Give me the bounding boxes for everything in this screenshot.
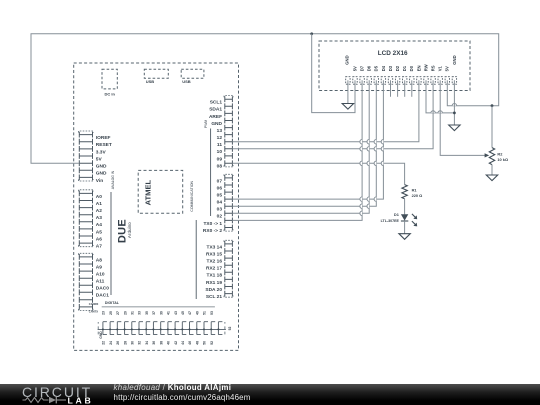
pin RX1 19 (right) xyxy=(206,277,232,286)
svg-text:COMMUNICATION: COMMUNICATION xyxy=(190,180,194,211)
svg-text:11: 11 xyxy=(217,142,222,148)
svg-text:EN: EN xyxy=(416,65,421,71)
pin 10 (right) xyxy=(217,146,233,155)
wire arduino pin04 to LCD D4 xyxy=(232,80,383,199)
svg-text:DAC0: DAC0 xyxy=(96,286,109,292)
svg-text:CANTX: CANTX xyxy=(89,310,98,314)
svg-text:A3: A3 xyxy=(96,215,102,221)
pin RX0 -> 2 (right) xyxy=(203,225,233,234)
ground symbol under R2 xyxy=(486,175,497,181)
svg-text:52: 52 xyxy=(210,341,214,345)
svg-text:39: 39 xyxy=(159,311,163,315)
svg-text:A9: A9 xyxy=(96,264,102,270)
svg-text:RX1 19: RX1 19 xyxy=(206,280,222,286)
svg-text:52: 52 xyxy=(228,327,232,331)
LCD unconnected pin stubs xyxy=(391,80,412,97)
USB connector 1 xyxy=(144,69,168,84)
DC in connector xyxy=(102,69,117,96)
wire GND loop net: arduino GND pin to top rail xyxy=(31,34,499,163)
svg-text:TX3 14: TX3 14 xyxy=(207,244,223,250)
svg-text:A5: A5 xyxy=(96,229,102,235)
pin AREF (right) xyxy=(209,111,232,120)
svg-text:51: 51 xyxy=(203,311,207,315)
svg-text:A11: A11 xyxy=(96,279,105,285)
hop on 5V rail over GND pin16 wire xyxy=(452,104,456,106)
svg-text:LAB: LAB xyxy=(68,395,94,405)
wire arduino pin03 to LCD D5 xyxy=(232,80,376,206)
svg-text:A8: A8 xyxy=(96,257,102,263)
LCD pin 2 5V xyxy=(352,66,357,84)
svg-text:SCL1: SCL1 xyxy=(210,100,223,106)
svg-text:32: 32 xyxy=(138,341,142,345)
svg-text:13: 13 xyxy=(217,128,223,134)
svg-text:TX2 16: TX2 16 xyxy=(207,259,223,265)
svg-text:R1: R1 xyxy=(412,187,418,192)
svg-text:A6: A6 xyxy=(96,236,102,242)
potentiometer R2 10k xyxy=(489,148,508,165)
pin A0 (left) xyxy=(79,190,103,200)
svg-text:RS: RS xyxy=(431,65,436,71)
svg-text:27: 27 xyxy=(116,311,120,315)
pin A8 (left) xyxy=(79,253,103,263)
svg-text:D6: D6 xyxy=(367,65,372,71)
svg-text:V1: V1 xyxy=(438,66,443,72)
author line xyxy=(114,383,232,392)
svg-text:GND: GND xyxy=(99,331,103,339)
CircuitLab logo xyxy=(22,384,92,400)
ground symbol under D1 xyxy=(399,234,410,240)
svg-text:37: 37 xyxy=(152,311,156,315)
wire R2 top lead xyxy=(491,106,493,148)
ATMEL chip xyxy=(138,170,183,213)
separator line right lower xyxy=(195,220,197,299)
LCD 2X16 module U1 xyxy=(319,41,470,91)
pin A10 (left) xyxy=(79,268,105,277)
LCD pin 4 D6 xyxy=(367,65,372,84)
svg-text:USB: USB xyxy=(146,79,155,84)
junction node at R2 top xyxy=(491,104,494,107)
pin 03 (right) xyxy=(217,203,233,212)
LCD pin 16 GND xyxy=(452,55,457,84)
pin A9 (left) xyxy=(79,261,102,270)
pin 07 (right) xyxy=(217,174,234,184)
LCD pin 9 D1 xyxy=(402,65,407,84)
svg-text:47: 47 xyxy=(188,311,192,315)
svg-text:48: 48 xyxy=(196,341,200,345)
pin RESET (left) xyxy=(79,139,112,148)
wire R1 to D1 xyxy=(404,199,406,215)
svg-text:D1: D1 xyxy=(402,65,407,71)
svg-text:29: 29 xyxy=(123,311,127,315)
hop RW wire over V1 xyxy=(438,111,442,113)
svg-text:22: 22 xyxy=(102,341,106,345)
wire LCD pin1 GND to ground xyxy=(347,80,349,103)
svg-text:5V: 5V xyxy=(96,156,103,162)
ground symbol under LCD pin1 xyxy=(342,104,353,110)
pin 06 (right) xyxy=(217,182,233,191)
pin SCL1 (right) xyxy=(210,96,233,106)
wire arduino pin10 to LCD RS xyxy=(232,80,433,149)
svg-text:ATMEL: ATMEL xyxy=(144,179,153,205)
svg-text:35: 35 xyxy=(145,311,149,315)
svg-text:IOREF: IOREF xyxy=(96,135,111,141)
LED D1 LTL-307EE xyxy=(381,212,418,226)
LCD pin 3 D7 xyxy=(360,65,365,84)
svg-text:R2: R2 xyxy=(497,152,503,157)
svg-text:49: 49 xyxy=(196,311,200,315)
svg-text:31: 31 xyxy=(131,311,135,315)
svg-text:07: 07 xyxy=(217,178,223,184)
svg-text:D3: D3 xyxy=(388,65,393,71)
svg-text:220 Ω: 220 Ω xyxy=(412,193,423,198)
pin 3.3V (left) xyxy=(79,146,106,155)
svg-text:RX2 17: RX2 17 xyxy=(206,266,222,272)
svg-text:06: 06 xyxy=(217,185,223,191)
LCD pin 12 RW xyxy=(423,64,428,84)
pin A7 (left) xyxy=(79,240,103,249)
digital header GND rail xyxy=(98,328,226,330)
LCD pin 14 V1 xyxy=(438,66,443,85)
pin 09 (right) xyxy=(217,153,233,162)
svg-text:GND: GND xyxy=(96,171,107,177)
pin CANRX xyxy=(79,297,98,306)
svg-text:04: 04 xyxy=(217,200,223,206)
junction node at top rail to LCD 5V pin2 xyxy=(310,32,313,35)
junction dots on GND rail xyxy=(102,328,219,330)
svg-text:LCD 2X16: LCD 2X16 xyxy=(378,50,408,57)
LCD pin 8 D2 xyxy=(395,65,400,84)
svg-text:D0: D0 xyxy=(409,65,414,71)
svg-text:SDA1: SDA1 xyxy=(209,107,222,113)
svg-text:44: 44 xyxy=(181,341,185,345)
svg-text:36: 36 xyxy=(152,341,156,345)
svg-text:DC in: DC in xyxy=(104,92,115,97)
svg-text:TX1 18: TX1 18 xyxy=(207,273,223,279)
svg-text:Vin: Vin xyxy=(96,178,103,184)
svg-text:USB: USB xyxy=(182,79,191,84)
pin IOREF (left) xyxy=(79,131,111,141)
svg-text:A2: A2 xyxy=(96,208,102,214)
pin A11 (left) xyxy=(79,275,104,284)
svg-text:LTL-307EE: LTL-307EE xyxy=(381,219,400,223)
wire R2 bottom to ground xyxy=(491,165,493,175)
pin 02 (right) xyxy=(217,210,233,219)
svg-text:Arduino: Arduino xyxy=(127,222,132,238)
pin SCL 21 (right) xyxy=(206,291,233,300)
ground symbol under LCD pin16 xyxy=(449,125,460,131)
pin TX1 18 (right) xyxy=(207,269,233,278)
svg-text:05: 05 xyxy=(217,193,223,199)
pin 11 (right) xyxy=(217,139,232,148)
svg-text:02: 02 xyxy=(217,214,223,220)
LCD pin 11 EN xyxy=(416,65,421,84)
svg-text:SDA 20: SDA 20 xyxy=(205,287,222,293)
pin 5V (left) xyxy=(79,153,102,162)
svg-text:RX0 -> 2: RX0 -> 2 xyxy=(203,228,222,234)
svg-text:24: 24 xyxy=(109,341,113,345)
pin 08 (right) xyxy=(217,160,234,169)
svg-text:41: 41 xyxy=(167,311,171,315)
svg-text:10 kΩ: 10 kΩ xyxy=(497,157,508,162)
svg-text:09: 09 xyxy=(217,156,223,162)
pin 05 (right) xyxy=(217,189,233,198)
wire arduino TX0 to LCD D7 xyxy=(232,80,362,220)
svg-text:GND: GND xyxy=(452,55,457,64)
wire arduino pin08 to R1 xyxy=(232,163,404,184)
svg-text:38: 38 xyxy=(159,341,163,345)
LCD pin 15 5V xyxy=(445,66,450,84)
pin Vin (left) xyxy=(79,175,104,184)
hop RW wire over RS xyxy=(431,111,435,113)
wire hops on data verticals xyxy=(360,140,383,216)
pin GND (left) xyxy=(79,160,107,169)
pin DAC0 (left) xyxy=(79,282,109,291)
LCD pin 13 RS xyxy=(431,65,436,84)
pin GND (left) xyxy=(79,167,107,176)
logo waveform: resistor + diode xyxy=(23,397,49,402)
svg-text:30: 30 xyxy=(131,341,135,345)
svg-text:GND: GND xyxy=(96,164,107,170)
svg-text:26: 26 xyxy=(116,341,120,345)
pin SDA 20 (right) xyxy=(205,284,232,293)
pin 13 (right) xyxy=(217,125,233,134)
pin SDA1 (right) xyxy=(209,103,232,112)
svg-text:45: 45 xyxy=(181,311,185,315)
pin CANTX xyxy=(79,304,99,314)
svg-text:08: 08 xyxy=(217,164,223,170)
digital header pin leads xyxy=(31,32,508,344)
pin TX3 14 (right) xyxy=(207,240,234,250)
pin DAC1 (left) xyxy=(79,289,109,298)
svg-text:5V: 5V xyxy=(445,66,450,71)
pin 12 (right) xyxy=(217,132,233,141)
svg-text:42: 42 xyxy=(174,341,178,345)
svg-text:CANRX: CANRX xyxy=(89,302,99,306)
svg-text:D5: D5 xyxy=(374,65,379,71)
svg-text:TX0 -> 1: TX0 -> 1 xyxy=(203,221,222,227)
pin A5 (left) xyxy=(79,226,102,235)
digital header bottom labels 22-52 xyxy=(102,341,214,345)
svg-text:AREF: AREF xyxy=(209,114,222,120)
svg-text:A4: A4 xyxy=(96,222,102,228)
svg-text:SCL 21: SCL 21 xyxy=(206,294,223,300)
svg-text:DIGITAL: DIGITAL xyxy=(105,301,120,305)
wire V1 contrast to R2 wiper xyxy=(440,80,486,155)
wire top rail to LCD pin2 5V xyxy=(312,34,355,113)
svg-text:A7: A7 xyxy=(96,244,102,250)
LCD pin 6 D4 xyxy=(381,65,386,84)
svg-text:D4: D4 xyxy=(381,65,386,71)
pin A2 (left) xyxy=(79,205,102,214)
svg-text:23: 23 xyxy=(102,311,106,315)
resistor R1 xyxy=(402,185,422,199)
wire D1 to ground xyxy=(404,221,406,234)
R2 wiper arrowhead xyxy=(485,153,490,157)
pin RX3 15 (right) xyxy=(206,248,232,257)
svg-text:03: 03 xyxy=(217,207,223,213)
wire arduino pin11 to LCD EN xyxy=(232,80,419,141)
svg-text:D1: D1 xyxy=(394,212,400,217)
USB connector 2 xyxy=(181,69,204,84)
svg-text:PWM: PWM xyxy=(204,120,208,128)
svg-text:34: 34 xyxy=(145,341,149,345)
pin TX2 16 (right) xyxy=(207,255,233,264)
LCD pin 5 D5 xyxy=(374,65,379,84)
svg-text:D2: D2 xyxy=(395,65,400,71)
svg-text:5V: 5V xyxy=(352,66,357,71)
pin A4 (left) xyxy=(79,219,102,228)
svg-text:10: 10 xyxy=(217,149,223,155)
svg-text:43: 43 xyxy=(174,311,178,315)
svg-text:46: 46 xyxy=(188,341,192,345)
svg-text:33: 33 xyxy=(138,311,142,315)
svg-text:GND: GND xyxy=(344,55,349,64)
digital header top labels 23-53 xyxy=(102,311,214,315)
svg-text:25: 25 xyxy=(109,311,113,315)
svg-text:A10: A10 xyxy=(96,272,105,278)
url line xyxy=(114,393,251,402)
svg-text:3.3V: 3.3V xyxy=(96,149,107,155)
svg-text:28: 28 xyxy=(123,341,127,345)
pin RX2 17 (right) xyxy=(206,262,232,271)
pin A1 (left) xyxy=(79,198,102,207)
svg-text:D7: D7 xyxy=(360,65,365,71)
svg-text:53: 53 xyxy=(210,311,214,315)
svg-text:RX3 15: RX3 15 xyxy=(206,251,222,257)
pin A3 (left) xyxy=(79,212,102,221)
svg-text:40: 40 xyxy=(167,341,171,345)
svg-text:A1: A1 xyxy=(96,201,102,207)
separator line right upper xyxy=(210,129,212,217)
wire RW + GND16 to ground net xyxy=(426,80,454,125)
svg-text:RESET: RESET xyxy=(96,142,112,148)
svg-text:50: 50 xyxy=(203,341,207,345)
svg-text:DAC1: DAC1 xyxy=(96,293,109,299)
svg-text:RW: RW xyxy=(423,64,428,71)
separator line left xyxy=(110,192,112,295)
svg-text:A0: A0 xyxy=(96,194,102,200)
svg-text:GND: GND xyxy=(211,121,222,127)
arduino DUE U2 outline xyxy=(74,63,239,350)
svg-text:ANALOG IN: ANALOG IN xyxy=(111,170,115,189)
wire arduino pin02 to LCD D6 xyxy=(232,80,369,213)
pin GND (right) xyxy=(211,118,232,127)
LCD pin 7 D3 xyxy=(388,65,393,84)
pin TX0 -> 1 (right) xyxy=(203,218,232,227)
LCD pin 10 D0 xyxy=(409,65,414,84)
LCD pin 1 GND xyxy=(344,55,350,84)
pin 04 (right) xyxy=(217,196,233,205)
junction RW/GND16 xyxy=(453,112,456,115)
svg-text:12: 12 xyxy=(217,135,223,141)
pin A6 (left) xyxy=(79,233,102,242)
